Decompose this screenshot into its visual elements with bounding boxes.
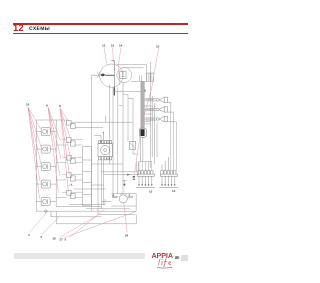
harness cable thick: [141, 81, 144, 128]
lamp L3: [41, 163, 50, 171]
footer APPIA logo: [151, 252, 172, 259]
terminal strip 2: [159, 157, 178, 187]
header chapter number 12: [13, 24, 24, 33]
svg-text:24: 24: [125, 234, 129, 238]
svg-text:5: 5: [40, 235, 42, 239]
wires bulbs down to strip1: [155, 103, 157, 164]
junction circle: [45, 210, 47, 212]
svg-text:13: 13: [111, 44, 115, 48]
lamp L1 leads: [36, 131, 56, 133]
pair P2 wires: [56, 140, 82, 145]
svg-text:9: 9: [46, 103, 48, 107]
wires strip2 up: [171, 124, 177, 171]
wires bulbs brackets down to strip2: [168, 103, 177, 125]
motor housing: [101, 194, 136, 206]
headlamp circle: [100, 64, 123, 87]
rung top left block: [36, 119, 66, 121]
bulb B3: [146, 116, 168, 121]
right pair verticals: [151, 62, 153, 168]
bulb circle: [117, 68, 132, 83]
svg-text:9: 9: [144, 89, 146, 93]
chord in headlamp: [111, 61, 114, 88]
arrow mark above P4: [71, 184, 72, 185]
coil component: [94, 135, 101, 141]
svg-text:6: 6: [112, 194, 114, 198]
motor circle: [112, 194, 134, 203]
svg-text:12: 12: [102, 44, 106, 48]
svg-text:8: 8: [59, 104, 61, 108]
svg-text:14: 14: [119, 44, 123, 48]
strip1 fan wires: [139, 138, 152, 162]
footer page tab: [181, 255, 188, 262]
footer gray bar: [14, 253, 145, 259]
leader motor: [124, 203, 127, 233]
leader top1: [104, 48, 107, 64]
svg-text:5: 5: [64, 238, 66, 242]
pair P4 wires: [56, 175, 82, 180]
header title СХЕМЫ: [29, 27, 50, 32]
leader right15: [134, 48, 158, 176]
connector U1 two squares: [146, 73, 150, 81]
switch pair P2: [67, 138, 76, 146]
svg-text:13: 13: [172, 189, 176, 193]
leader fan B: [48, 107, 61, 193]
lamp L4: [41, 180, 50, 188]
nested bottom lines: [51, 211, 137, 224]
switch pair P4: [67, 173, 76, 181]
switch pair P1: [67, 120, 76, 128]
leader bottom fan: [29, 209, 136, 237]
svg-text:16: 16: [52, 236, 56, 240]
footer page number: [175, 255, 179, 260]
horn body: [98, 140, 112, 160]
junction wire: [36, 206, 136, 211]
pair P3 wires: [56, 157, 82, 162]
footer life script: [155, 258, 175, 269]
switch pair P3: [67, 155, 76, 163]
lamp L1: [41, 128, 50, 136]
bottom wiring: [74, 161, 139, 214]
lamp L3 leads: [36, 166, 56, 168]
lamp L5 leads: [36, 201, 56, 203]
horn terminal: [102, 133, 104, 141]
svg-text:12: 12: [149, 190, 153, 194]
svg-text:4: 4: [28, 233, 30, 237]
pair P1 wires: [71, 115, 133, 127]
lamp L4 leads: [36, 183, 56, 185]
switch pair P5: [67, 190, 76, 198]
lamp feed rungs: [144, 100, 154, 119]
bulb B2: [146, 107, 168, 112]
wire: main left bus vertical: [90, 75, 92, 211]
wires from bulb to right: [117, 65, 147, 82]
cable connector dark: [140, 128, 147, 137]
spark plug symbol: [100, 74, 105, 77]
svg-text:7: 7: [128, 194, 130, 198]
svg-text:15: 15: [156, 45, 160, 49]
bulb B1: [146, 97, 168, 102]
thick stub below lamp: [113, 87, 115, 95]
pair P5 wires: [56, 192, 82, 197]
lamp L2 leads: [36, 148, 56, 150]
svg-text:17: 17: [59, 238, 63, 242]
wire: bus top corner to plug area: [92, 74, 99, 76]
leader top2: [112, 48, 115, 63]
wires below horn: [98, 160, 104, 215]
left bus x36: [35, 120, 37, 211]
leader fan C: [60, 108, 71, 193]
filament: [120, 71, 126, 78]
svg-text:10: 10: [26, 102, 30, 106]
header red rule bottom: [13, 33, 189, 34]
header red rule top: [13, 23, 189, 25]
switch box right: [129, 142, 135, 150]
tiny callout labels: [26, 43, 176, 241]
long rungs: [56, 106, 123, 207]
lamp L5: [41, 198, 50, 206]
col B bus: [55, 120, 57, 207]
junction block: [82, 146, 91, 206]
lamp L2: [41, 145, 50, 153]
middle verticals: [109, 83, 137, 197]
wire rung below circle: [113, 91, 141, 98]
strip1 pre-pin stubs: [139, 162, 152, 171]
terminal strip 1: [136, 171, 155, 188]
leader fan A: [28, 107, 41, 199]
red leader lines: [28, 47, 159, 237]
leader top3: [119, 48, 122, 86]
